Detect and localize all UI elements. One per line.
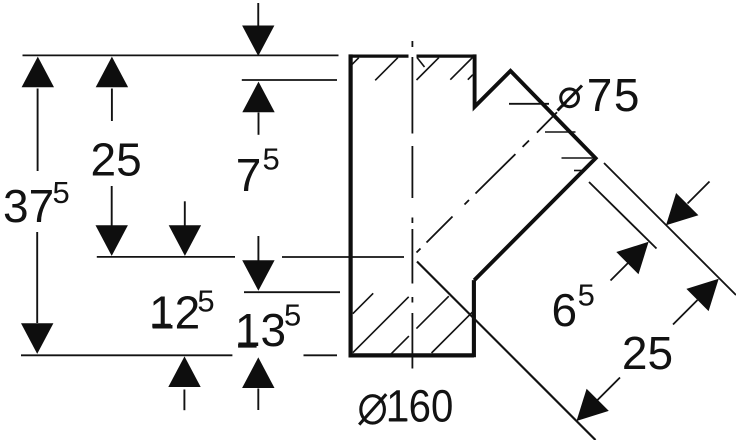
label serif foot of digit 1 in 12.5 <box>152 324 171 328</box>
wire bottom face extension line left piece <box>21 354 232 356</box>
wire top edge left piece <box>349 54 409 57</box>
arrow 37.5 up <box>22 57 54 88</box>
wire 6.5 dim stem upper <box>688 182 710 204</box>
svg-text:6: 6 <box>552 284 578 336</box>
wire stem 13.5 down arrow <box>257 236 259 262</box>
svg-text:12: 12 <box>149 286 200 338</box>
wire socket inner extension D2 <box>589 182 657 249</box>
wire stem 7.5 up arrow <box>258 113 260 135</box>
wire hatch t4 <box>450 58 472 80</box>
wire top face extension line <box>23 54 339 56</box>
arrow 12.5 down <box>169 225 201 256</box>
arrow stems vertical <box>37 3 258 410</box>
arrow 37.5 down <box>21 323 53 354</box>
branch centerline (45 deg dash-dot) <box>417 103 567 253</box>
wire stem 12.5 up arrow <box>183 390 185 411</box>
arrow top pointing down at top face <box>242 26 274 57</box>
label serif foot of digit 1 in 13.5 <box>238 344 257 348</box>
arrow 25 diag pointing up-right <box>686 279 718 311</box>
wire long 25-dim reference diagonal <box>417 262 596 440</box>
wire hatch t2 <box>375 58 398 81</box>
thin extension and dimension lines <box>21 55 736 406</box>
wire 25 dim stem upper <box>673 300 698 325</box>
diameter symbol o75 <box>558 86 583 111</box>
wire branch centerline <box>417 103 567 253</box>
svg-text:5: 5 <box>53 175 70 210</box>
arrow 25 diag pointing down-left <box>577 389 609 421</box>
svg-text:37: 37 <box>3 180 54 232</box>
arrow 12.5 up <box>168 356 200 387</box>
arrow 25 down <box>96 225 128 256</box>
wire 12.5 top reference line left piece <box>97 256 235 258</box>
wire 6.5 dim stem lower <box>611 258 634 281</box>
arrow 7.5 up <box>242 82 274 113</box>
wire pipe centerline <box>411 41 413 369</box>
wire stem 12.5 down arrow <box>184 201 186 226</box>
wire hatch b1 <box>353 293 373 313</box>
wire hatch t3 <box>417 58 439 80</box>
pipe centerline (vertical dash-dot) <box>411 41 413 369</box>
svg-text:5: 5 <box>197 284 214 319</box>
hatching bottom band <box>353 293 473 354</box>
wire odd tick near centerline gap <box>417 58 425 68</box>
wire stem 13.5 up arrow <box>257 389 259 411</box>
wire top edge right piece <box>417 54 477 57</box>
wire hatch b2 <box>353 297 409 353</box>
wire o75 leader line <box>509 103 549 105</box>
wire hatch t5 tick <box>468 75 473 80</box>
svg-text:25: 25 <box>622 327 673 379</box>
arrow 6.5 upper pointing down-left <box>666 193 698 225</box>
wire hatch t1 <box>351 58 359 66</box>
wire stem 25 lower <box>111 186 113 226</box>
wire hatch b3 left <box>391 336 409 354</box>
diameter symbol o160 <box>359 394 386 424</box>
wire right wall upper, V notch, branch mouth, branch lower wall <box>474 54 595 280</box>
svg-text:5: 5 <box>284 298 301 333</box>
wire 13.5 top reference line <box>244 291 340 293</box>
wire socket hatch s4 <box>574 170 582 172</box>
arrow 25 up <box>96 57 128 88</box>
arrow 13.5 up <box>242 357 274 388</box>
wire socket hatch s2 <box>545 131 576 133</box>
wire 7.5 reference line <box>242 79 337 81</box>
svg-text:25: 25 <box>91 134 142 186</box>
svg-text:160: 160 <box>386 381 453 432</box>
wire stem of top down arrow <box>257 3 259 26</box>
wire bottom face extension line right piece <box>304 354 338 356</box>
wire right wall lower <box>472 280 476 357</box>
wire 25 dim stem lower <box>592 378 621 407</box>
branch socket band hatches (horizontal) <box>545 132 593 171</box>
svg-text:5: 5 <box>578 278 595 313</box>
pipe body outline <box>349 54 596 357</box>
wire left wall and bottom edge <box>351 54 474 355</box>
svg-text:13: 13 <box>235 304 286 356</box>
arrow 13.5 down <box>242 260 274 291</box>
svg-text:75: 75 <box>587 69 641 121</box>
wire branch mouth extension D1 <box>604 163 736 295</box>
wire hatch b4 <box>432 312 473 353</box>
arrow 6.5 lower pointing up-right <box>616 242 648 274</box>
svg-text:5: 5 <box>263 142 280 177</box>
wire hatch b3 right <box>416 296 448 328</box>
wire 12.5 top reference line right piece <box>282 256 404 258</box>
wire stem 37.5 upper <box>37 89 39 172</box>
wire stem 25 upper <box>111 89 113 122</box>
svg-text:7: 7 <box>236 149 262 201</box>
wire socket hatch s3 <box>562 157 593 159</box>
hatching top band <box>351 58 473 81</box>
label serif foot of digit 1 in 160 <box>389 418 408 421</box>
wire stem 37.5 lower <box>36 232 38 323</box>
